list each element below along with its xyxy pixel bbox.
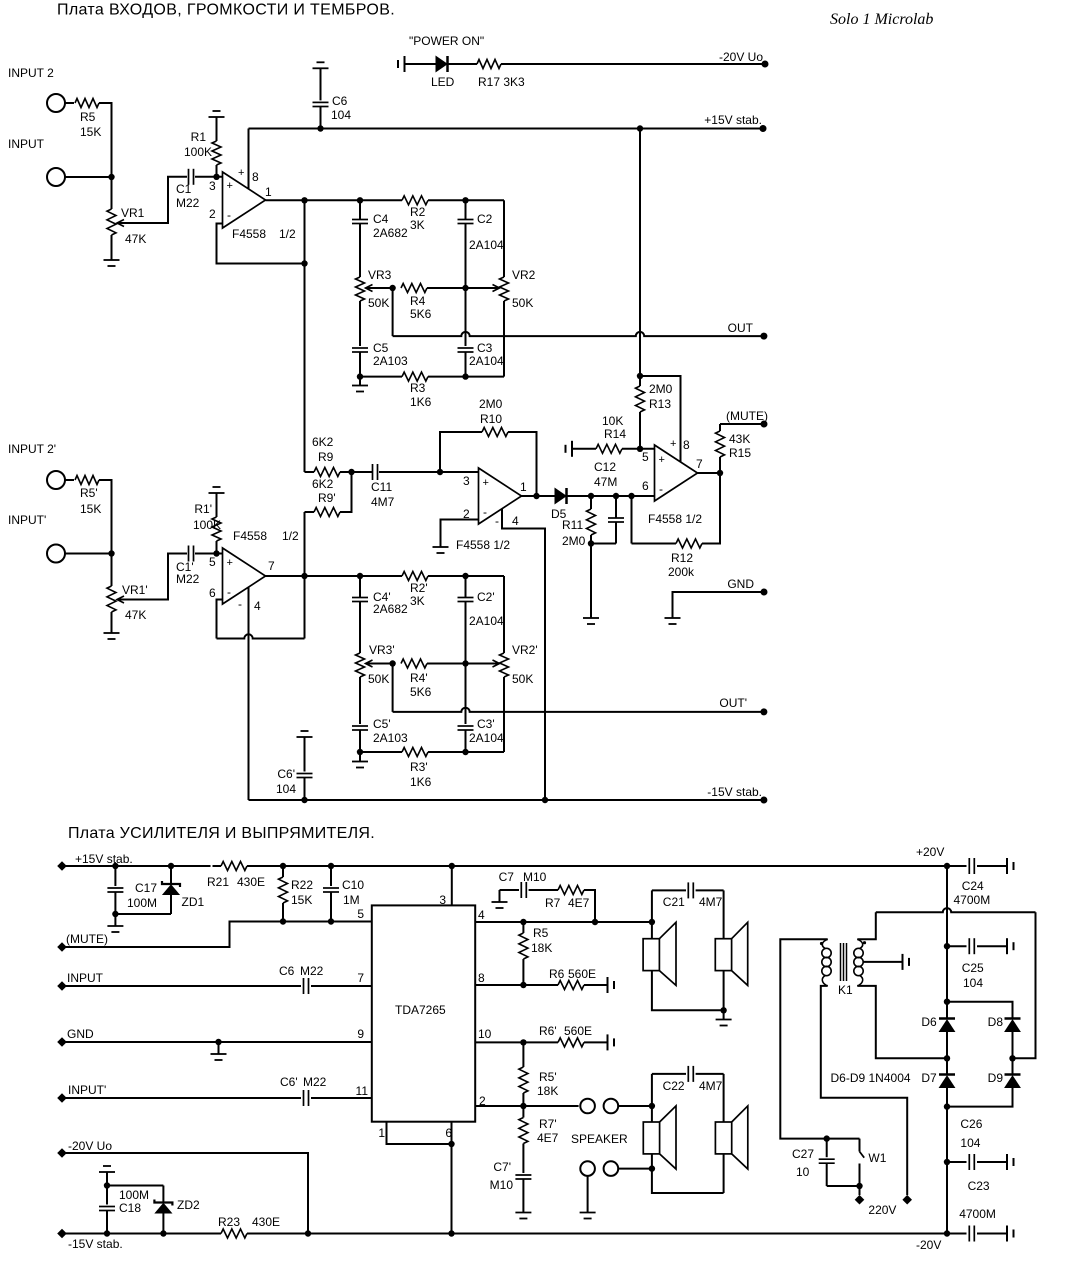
svg-text:C23: C23 [968,1179,990,1193]
svg-text:F4558 1/2: F4558 1/2 [648,512,702,526]
pin 8 supply stub U1a [248,129,250,190]
svg-text:+15V stab.: +15V stab. [75,852,133,866]
wire output U1c [522,495,556,497]
wire [723,971,725,1011]
pin 2 line [475,1105,578,1107]
capacitor C11 [352,471,373,473]
svg-text:R1': R1' [194,502,212,516]
node GND terminal [57,1037,67,1047]
resistor R15 [719,424,721,431]
svg-text:1: 1 [265,185,272,199]
svg-text:VR3': VR3' [369,643,395,657]
wire [311,1097,372,1099]
svg-text:47K: 47K [125,608,146,622]
wire D8/D9 branch [947,1002,1013,1018]
svg-text:R5: R5 [80,110,96,124]
resistor R9' [305,511,315,513]
wire wiper to C1' [117,554,187,600]
pins 1,6 bottom stubs [387,1122,452,1144]
resistor R22 [280,863,286,869]
svg-text:200k: 200k [668,565,695,579]
svg-text:3: 3 [463,474,470,488]
wire [618,1168,652,1170]
node 220V left [855,1195,865,1205]
capacitor C4 [357,197,363,203]
svg-text:C21: C21 [663,895,685,909]
wire [568,495,655,497]
svg-text:C3: C3 [477,341,493,355]
wire -15V stab rail [249,799,764,801]
wire to VR2' wiper [466,663,500,665]
svg-text:3K: 3K [410,218,425,232]
svg-text:7: 7 [696,457,703,471]
wire R13 top to pin8 [640,376,681,462]
svg-text:1/2: 1/2 [282,529,299,543]
svg-text:1K6: 1K6 [410,775,432,789]
svg-text:OUT: OUT [728,321,754,335]
svg-text:INPUT: INPUT [67,971,104,985]
svg-text:R9: R9 [318,450,334,464]
node +15V stab. (terminal) [57,861,67,871]
svg-text:+: + [670,438,676,450]
svg-text:R7': R7' [539,1117,557,1131]
op-amp U1b F4558 1/2 [223,548,266,604]
svg-text:D6: D6 [921,1015,937,1029]
svg-text:R22: R22 [291,878,313,892]
resistor R4 [401,284,427,293]
wire output U1a' [266,575,403,577]
svg-text:C5: C5 [373,341,389,355]
svg-text:1K6: 1K6 [410,395,432,409]
svg-text:R4: R4 [410,294,426,308]
svg-text:R11: R11 [562,518,583,532]
potentiometer VR1 [107,209,116,235]
wire [405,63,437,65]
wire +15V drop to R13 column [637,125,643,131]
svg-text:104: 104 [960,1136,980,1150]
svg-text:R9': R9' [318,491,336,505]
ground [218,1042,220,1054]
node pin6 junction [628,493,634,499]
wire +20V column [944,863,950,869]
pin 4 supply stub U1c [502,509,545,800]
svg-text:50K: 50K [368,296,389,310]
svg-text:18K: 18K [537,1084,558,1098]
node 220V right [902,1195,912,1205]
resistor R6 [558,981,584,990]
svg-text:47M: 47M [594,475,617,489]
svg-text:C6': C6' [280,1075,298,1089]
svg-text:1: 1 [378,1126,385,1140]
resistor R3' [402,748,428,757]
resistor R2' [402,572,428,581]
capacitor C6' (amp board) [303,1090,305,1106]
svg-text:4: 4 [254,599,261,613]
IC TDA7265 [372,905,475,1121]
capacitor C5' [359,677,361,724]
wire secondary centre tap [863,961,903,963]
wire wiper to C1 [117,177,187,223]
wire [827,1185,860,1187]
svg-text:C22: C22 [663,1079,685,1093]
wire C18 to ZD2 [107,1185,163,1187]
wire OUT' row [392,664,394,712]
svg-text:C6': C6' [277,767,295,781]
svg-text:-: - [483,505,487,519]
svg-text:100K: 100K [193,518,221,532]
svg-text:+: + [227,180,233,192]
capacitor C23 [947,1233,967,1235]
capacitor C24 [968,858,970,874]
svg-text:INPUT': INPUT' [68,1083,106,1097]
svg-text:18K: 18K [531,941,552,955]
resistor R3 [402,372,428,381]
svg-text:M22: M22 [176,196,200,210]
svg-text:C27: C27 [792,1147,814,1161]
ground [723,1010,725,1019]
svg-text:47K: 47K [125,232,146,246]
ground [433,546,449,548]
svg-text:C17: C17 [135,881,157,895]
resistor R12 feedback [632,543,677,545]
capacitor C21 [652,889,686,891]
svg-text:430E: 430E [237,875,265,889]
svg-text:C11: C11 [371,480,392,494]
svg-text:10: 10 [478,1027,492,1041]
wire wiper row R4' [366,663,393,665]
speaker connector pair upper [580,1099,595,1114]
wire to ground [590,544,592,619]
diode D6 [946,1002,948,1018]
svg-text:VR3: VR3 [368,268,392,282]
svg-text:C7: C7 [499,870,515,884]
ground [515,1212,531,1214]
svg-text:VR1': VR1' [122,583,148,597]
svg-text:6K2: 6K2 [312,477,334,491]
wire OUT row [392,288,394,336]
resistor R21 [221,862,247,871]
svg-text:104: 104 [276,782,296,796]
svg-text:6: 6 [209,586,216,600]
wire primary bottom to 220V [821,986,907,1195]
resistor R14 [572,448,596,450]
resistor R5'(amp) [522,1042,524,1067]
svg-text:2A104: 2A104 [469,238,504,252]
svg-text:GND: GND [67,1027,94,1041]
wire R11/C12 bottom [591,543,616,545]
potentiometer VR2 [503,200,505,277]
svg-text:R5': R5' [80,486,98,500]
wire pin6 feedback [217,600,223,639]
svg-text:Плата ВХОДОВ, ГРОМКОСТИ И ТЕМБ: Плата ВХОДОВ, ГРОМКОСТИ И ТЕМБРОВ. [57,2,395,19]
svg-text:R17 3K3: R17 3K3 [478,75,525,89]
svg-text:D7: D7 [921,1071,937,1085]
svg-text:7: 7 [268,559,275,573]
svg-text:VR2: VR2 [512,268,536,282]
speaker LS1' [643,1122,659,1154]
svg-text:"POWER ON": "POWER ON" [409,34,484,48]
svg-text:R2: R2 [410,205,426,219]
capacitor C6 [313,67,329,69]
capacitor C4' [357,573,363,579]
svg-text:4700M: 4700M [954,893,991,907]
ground [104,632,120,634]
pin 3 stub [451,866,453,905]
svg-text:1/2: 1/2 [279,227,296,241]
svg-text:1M: 1M [343,893,360,907]
wire top rail [62,865,211,867]
svg-text:M10: M10 [523,870,547,884]
potentiometer VR1' [107,586,116,612]
capacitor C26 [947,1161,967,1163]
wire secondary top to bridge [857,912,876,939]
zener ZD2 [162,1186,164,1203]
svg-text:8: 8 [683,438,690,452]
ground [357,373,363,379]
node (MUTE) [761,421,768,428]
svg-text:Solo 1 Microlab: Solo 1 Microlab [830,11,933,28]
svg-text:7: 7 [357,971,364,985]
svg-text:5: 5 [209,555,216,569]
svg-text:R3: R3 [410,381,426,395]
wire output column R9'/feedback [304,512,306,639]
transformer K1 secondary [857,939,862,948]
svg-text:Плата УСИЛИТЕЛЯ И ВЫПРЯМИТЕЛЯ.: Плата УСИЛИТЕЛЯ И ВЫПРЯМИТЕЛЯ. [68,825,375,842]
resistor R1 [209,116,225,118]
svg-text:INPUT 2: INPUT 2 [8,66,54,80]
svg-text:C24: C24 [962,879,984,893]
wire to ground [587,1176,589,1213]
wire input line [62,985,301,987]
svg-text:C4: C4 [373,212,389,226]
svg-text:3: 3 [209,179,216,193]
svg-text:-: - [227,208,231,222]
op-amp U1d F4558 1/2 [655,445,698,501]
svg-text:+: + [238,167,244,179]
svg-text:+: + [483,477,489,489]
svg-text:6: 6 [445,1126,452,1140]
svg-text:-: - [227,585,231,599]
switch W1 [827,1138,860,1140]
svg-text:R6: R6 [549,967,565,981]
diode D7 [946,1058,948,1074]
svg-text:C2': C2' [477,590,495,604]
connector R14 input [565,445,567,453]
node -15V stab. [760,797,767,804]
wire VR1 bottom [111,235,113,260]
wire [65,102,74,104]
resistor R7' [522,1106,524,1118]
svg-text:50K: 50K [512,672,533,686]
svg-text:R3': R3' [410,760,428,774]
svg-text:2M0: 2M0 [649,382,673,396]
wire secondary bottom to bridge [857,986,947,1058]
diode D8 [1005,1020,1020,1032]
svg-text:R13: R13 [649,397,671,411]
svg-text:D6-D9 1N4004: D6-D9 1N4004 [831,1071,911,1085]
svg-text:C25: C25 [962,961,984,975]
capacitor C7' [515,1174,531,1176]
ground [357,749,363,755]
svg-text:9: 9 [357,1027,364,1041]
node -15V stab. terminal [57,1229,67,1239]
wire [65,479,74,481]
wire [195,176,223,178]
wire output column to R9 [304,200,306,472]
svg-text:K1: K1 [838,983,853,997]
svg-text:C12: C12 [594,460,616,474]
polarity dot secondary [863,941,866,944]
wire [65,553,112,555]
node -20V Uo [762,61,769,68]
resistor R10 feedback [440,432,482,472]
node pin3 U1a [213,174,219,180]
wire [618,1105,652,1107]
svg-text:C3': C3' [477,717,495,731]
node +15V stab. [760,125,767,132]
wire left column [651,1074,653,1122]
wire ZD1 bottom to C17 [115,913,171,915]
svg-text:100M: 100M [127,896,157,910]
svg-text:10K: 10K [602,414,623,428]
svg-text:R12: R12 [671,551,693,565]
svg-text:C10: C10 [342,878,364,892]
potentiometer VR3' [356,653,365,677]
svg-text:-: - [659,482,663,496]
svg-text:2A104: 2A104 [469,731,504,745]
wire output U1a [266,199,403,201]
svg-text:R14: R14 [604,427,626,441]
ground [104,259,120,261]
resistor R4' [401,659,427,668]
svg-text:560E: 560E [564,1024,592,1038]
svg-text:15K: 15K [80,502,101,516]
ground [114,914,116,926]
capacitor C6 (amp board) [303,978,305,994]
svg-text:W1: W1 [868,1151,886,1165]
svg-text:4700M: 4700M [959,1207,996,1221]
svg-text:INPUT 2': INPUT 2' [8,442,56,456]
svg-text:4: 4 [512,514,519,528]
wire [99,103,112,209]
capacitor C1' [188,546,190,562]
svg-text:R10: R10 [480,412,502,426]
svg-text:1: 1 [520,480,527,494]
svg-text:M10: M10 [490,1178,514,1192]
wire to 220V [859,1186,861,1195]
wire [99,480,112,586]
resistor R17 [477,60,501,69]
wire -20V Uo [62,1153,308,1234]
svg-text:43K: 43K [729,432,750,446]
diode D5 [555,489,566,504]
svg-text:4: 4 [478,908,485,922]
svg-text:R21: R21 [207,875,229,889]
resistor R7 [529,889,558,891]
svg-text:OUT': OUT' [719,696,747,710]
svg-text:3K: 3K [410,594,425,608]
svg-text:R5: R5 [533,926,549,940]
capacitor C2 [462,197,468,203]
ground [665,617,681,619]
svg-text:4E7: 4E7 [568,896,590,910]
svg-text:15K: 15K [80,125,101,139]
wire mute to pin5 [62,922,372,948]
capacitor C17 [112,863,118,869]
speaker LS1 [643,939,659,971]
svg-text:INPUT: INPUT [8,137,45,151]
node pin5 U1a' [213,550,219,556]
svg-text:2A682: 2A682 [373,226,408,240]
svg-text:560E: 560E [568,967,596,981]
svg-text:C18: C18 [119,1201,141,1215]
wire [448,63,477,65]
wire [652,1154,724,1193]
svg-text:R2': R2' [410,581,428,595]
svg-text:R5': R5' [539,1070,557,1084]
ground [580,1212,596,1214]
svg-text:50K: 50K [512,296,533,310]
capacitor C10 [328,863,334,869]
svg-text:C5': C5' [373,717,391,731]
svg-text:C2: C2 [477,212,493,226]
potentiometer VR2' [503,576,505,653]
svg-text:R7: R7 [545,896,561,910]
capacitor C27 [824,1135,830,1141]
speaker connector pair lower [580,1161,595,1176]
svg-text:M22: M22 [300,964,324,978]
capacitor C22 [652,1073,686,1075]
svg-text:104: 104 [963,976,983,990]
svg-text:R6': R6' [539,1024,557,1038]
svg-text:10: 10 [796,1165,810,1179]
wire +15V stab rail [249,128,764,130]
wire left column [651,890,653,938]
pin 4 supply stub U1a' [248,587,250,800]
svg-text:GND: GND [727,577,754,591]
wire to -20V Uo terminal [501,63,765,65]
svg-text:5: 5 [642,450,649,464]
capacitor C25 [947,945,967,947]
svg-text:F4558 1/2: F4558 1/2 [456,538,510,552]
svg-text:5K6: 5K6 [410,307,432,321]
svg-text:C26: C26 [960,1117,982,1131]
svg-text:ZD2: ZD2 [177,1198,200,1212]
svg-text:11: 11 [356,1084,369,1098]
svg-text:15K: 15K [291,893,312,907]
resistor R5' [75,476,99,485]
svg-text:M22: M22 [176,572,200,586]
svg-text:4M7: 4M7 [699,1079,723,1093]
svg-text:100M: 100M [119,1188,149,1202]
resistor R5 [75,99,99,108]
resistor R11 [588,493,594,499]
ground [583,617,599,619]
svg-text:5K6: 5K6 [410,685,432,699]
svg-text:F4558: F4558 [233,529,267,543]
svg-text:8: 8 [252,170,259,184]
node INPUT terminal [57,981,67,991]
svg-text:50K: 50K [368,672,389,686]
LED [436,57,447,72]
svg-text:-15V stab.: -15V stab. [68,1237,123,1251]
svg-text:C6: C6 [279,964,295,978]
op-amp U1a F4558 1/2 [223,172,266,228]
svg-text:5: 5 [357,907,364,921]
svg-text:-15V stab.: -15V stab. [707,785,762,799]
svg-text:C6: C6 [332,94,348,108]
node GND [673,592,765,618]
